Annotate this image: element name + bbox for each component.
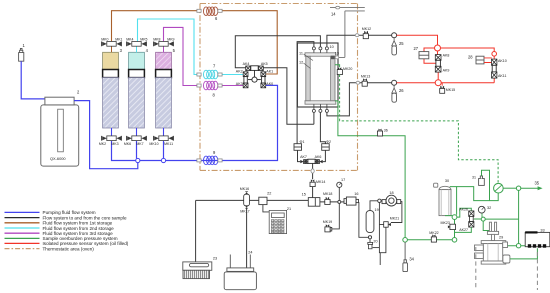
relief bottle 31 [479, 176, 485, 186]
vent line 14 (grey) [330, 8, 365, 58]
svg-text:20: 20 [373, 239, 377, 243]
svg-text:AK27: AK27 [459, 228, 468, 232]
port 13 fitting on right wall [331, 56, 335, 60]
svg-text:AK7: AK7 [300, 155, 307, 159]
storage column 4 (2nd, cyan cap) [129, 46, 145, 136]
node: junction 26 (black circle) [392, 80, 397, 85]
node: junction below 19 [368, 236, 371, 239]
node: green junction below vessel 30 [452, 238, 457, 243]
svg-text:MK8: MK8 [153, 37, 160, 41]
svg-text:31: 31 [472, 175, 476, 179]
svg-text:MK18: MK18 [323, 192, 332, 196]
svg-text:MK6: MK6 [124, 142, 131, 146]
svg-text:MK2: MK2 [99, 142, 106, 146]
valve AK2 [243, 72, 248, 77]
node: junction at press outlet [516, 244, 520, 248]
node: bus junction at column3 [161, 158, 165, 162]
hand press 29 [475, 222, 510, 264]
red isolated pressure sensor loop (left, 27/AK8/AK9) [397, 35, 495, 82]
AK7/AK6 center connector [308, 159, 315, 163]
svg-text:MK0: MK0 [101, 37, 108, 41]
wire: AK4 to core top port2 (black) [235, 36, 320, 68]
svg-text:AK1: AK1 [266, 70, 273, 74]
svg-text:AK3: AK3 [236, 82, 243, 86]
node: outlet junction 35 [516, 186, 520, 190]
svg-text:AK4: AK4 [243, 62, 250, 66]
collection flask 24 [224, 255, 256, 290]
core holder outer box 10 [297, 43, 338, 107]
left column connector [244, 77, 247, 83]
wire: AK27 bottom back to MK23 line [455, 227, 472, 232]
svg-text:10: 10 [330, 45, 334, 49]
valves MK16 / MK17 separator [244, 191, 250, 208]
svg-text:AK26: AK26 [459, 207, 468, 211]
wire: F1 to AK7 [298, 150, 301, 161]
wire: sample line left of 15 (to MK16/22) [196, 199, 309, 201]
filter F2 [322, 144, 330, 151]
coil 6 (brown heat exchanger) [204, 7, 218, 16]
svg-text:23: 23 [213, 256, 217, 260]
right column connector [262, 77, 265, 83]
tank 2 QX-6000 [41, 97, 79, 166]
cable: controller to floor (dashed grey) [536, 252, 538, 290]
valve AK1 [261, 72, 266, 77]
balance 23 [183, 262, 212, 279]
valve MK12 [363, 31, 368, 39]
wire: column3 valve to bus [163, 141, 165, 159]
node: junction at gauge 17 [338, 200, 341, 203]
storage column 5 (3rd, plum cap) [156, 46, 172, 136]
svg-text:MK3: MK3 [111, 142, 118, 146]
core top ports [312, 47, 328, 53]
pressure sensor 27 [419, 52, 429, 59]
valve MK22 [431, 234, 436, 242]
node: green junction at 34 [403, 238, 408, 243]
valve pair MK10 MK11 [154, 136, 174, 141]
wire: pump right port to MK21 [391, 202, 402, 223]
svg-text:14: 14 [331, 11, 336, 16]
svg-text:21: 21 [287, 207, 291, 211]
svg-text:MK23: MK23 [441, 221, 450, 225]
wire: junction down to press circuit [518, 190, 520, 243]
outlet arrow 35 [521, 187, 539, 189]
svg-text:MK22: MK22 [429, 231, 438, 235]
node: bus junction at column2 [136, 158, 140, 162]
wire: MK17 down to flask 24 [246, 209, 248, 268]
valve AK7 [300, 160, 308, 164]
valve MK19 [325, 224, 332, 232]
svg-text:35: 35 [535, 180, 540, 185]
computer 21 (keypad) [269, 210, 286, 233]
gauge 32 [481, 213, 483, 217]
node: junction left of pump 18 [378, 199, 381, 202]
svg-text:MK11: MK11 [164, 142, 173, 146]
svg-text:26: 26 [399, 88, 404, 93]
valve MK13 [362, 78, 367, 86]
svg-text:MK19: MK19 [323, 220, 332, 224]
valve AK0 [261, 83, 266, 88]
svg-text:Φ1: Φ1 [300, 140, 305, 144]
valve MK14 [310, 179, 315, 186]
wire: vessel 30 to regulator (green loop) [457, 187, 499, 201]
manifold center circle [254, 70, 256, 77]
bottle 26 [392, 85, 397, 93]
valve AK26 [469, 211, 474, 217]
wire: F2 to AK6 [323, 150, 326, 161]
svg-text:Thermostatic area (oven): Thermostatic area (oven) [43, 246, 95, 251]
svg-text:MK5: MK5 [140, 37, 147, 41]
wet gas meter 16 [344, 197, 359, 205]
svg-text:25: 25 [399, 41, 404, 46]
svg-text:MK7: MK7 [136, 142, 143, 146]
wire: AK9 down to junction [437, 72, 439, 79]
gas meter 22 [259, 197, 267, 204]
wire: pump junction down / MK21 drain [379, 203, 386, 266]
coil 7 (cyan) [204, 70, 218, 79]
valve AK11 [492, 72, 497, 78]
wire: magenta from coil 8 to AK3 [222, 85, 243, 87]
svg-text:AK2: AK2 [236, 70, 243, 74]
valve pair MK0 MK1 [102, 42, 122, 47]
wire: circle28 to AK10 [493, 56, 495, 59]
node: green junction at vessel 30 bottom [452, 215, 457, 220]
wire: brown from column1 top to coil 6 [112, 11, 197, 42]
wire: trap 20 outlet [373, 247, 380, 249]
valve AK4 [246, 66, 251, 71]
svg-text:MK14: MK14 [316, 180, 325, 184]
wire: 22 to computer 21 [263, 205, 269, 212]
svg-text:36: 36 [384, 128, 388, 132]
wire: 16 down to drying column 19 bottom [359, 203, 369, 238]
oven wall fitting on MK14 line [311, 169, 314, 173]
wire: junction25 to sensor tree [397, 35, 438, 45]
svg-text:AK6: AK6 [315, 155, 322, 159]
wire: green overburden main line core to junction 34 [335, 101, 405, 238]
wire: cyan from coil 7 to AK2 [222, 74, 243, 76]
pressure sensor 28 [476, 56, 484, 64]
oven wall fitting on MK12 line [355, 34, 359, 37]
wire: junction up through MK23 to vessel 30 [454, 220, 456, 238]
wire: bottle 31 branch [482, 170, 490, 200]
valve pair MK8 MK9 [154, 42, 174, 47]
wire: stack to gauge junction and to pressure rail [474, 218, 519, 220]
wire: junction to 16 [341, 201, 344, 203]
svg-text:11: 11 [299, 51, 303, 55]
gauge 17 [338, 187, 340, 200]
valve AK5 [259, 66, 264, 71]
svg-text:MK15: MK15 [446, 88, 455, 92]
back pressure device 15 [308, 198, 320, 207]
wire: gauge junction down to press 29 [483, 221, 489, 230]
svg-text:MK17: MK17 [240, 210, 249, 214]
wire: magenta from column3 top to coil 8 [164, 27, 197, 85]
thermostatic oven boundary (dash-dot) [200, 4, 358, 171]
coil 8 (magenta) [204, 81, 218, 90]
moisture trap 20 [369, 239, 371, 243]
storage column 3 (1st, tan cap) [103, 46, 119, 136]
bottle 34 [403, 260, 408, 272]
svg-text:29: 29 [499, 236, 503, 240]
legend [5, 212, 40, 248]
valve AK8 [435, 55, 441, 61]
wire: tee up to core top port1 and down to filter F1 [297, 42, 314, 144]
svg-text:17: 17 [341, 178, 345, 182]
svg-text:Φ2: Φ2 [326, 140, 331, 144]
wire: 27 branch [424, 48, 436, 63]
cable: press to floor (dashed grey) [475, 247, 477, 290]
valve pair MK2 MK3 [102, 136, 122, 141]
valve MK18 [325, 197, 330, 205]
svg-text:18: 18 [389, 191, 393, 195]
coil 9 (blue, on pump bus) [204, 156, 218, 165]
filter F1 [294, 144, 302, 151]
svg-text:AK8: AK8 [443, 53, 450, 57]
valve pair MK4 MK5 [127, 42, 147, 47]
wire: vessel 30 connections (green) [445, 187, 457, 216]
node: red junction bottom [435, 80, 441, 86]
AK8/AK9 connector [436, 60, 441, 66]
manifold top connector [251, 66, 258, 71]
wire: brown from coil 6 to AK1 [222, 11, 277, 74]
svg-text:12: 12 [299, 60, 303, 64]
svg-text:13: 13 [335, 52, 339, 56]
svg-text:MK21: MK21 [390, 216, 399, 220]
svg-text:16: 16 [354, 192, 358, 196]
wire: core top port3 to MK12 and sensor junction (black) [327, 35, 392, 47]
bottle 25 [392, 38, 397, 46]
wire: press to junction and to controller 33 [506, 245, 528, 247]
bottle 1 [19, 48, 24, 61]
svg-text:32: 32 [487, 206, 491, 210]
valve AK3 [243, 83, 248, 88]
wire: bottle 1 to tank 2 (blue) [21, 61, 45, 99]
svg-text:34: 34 [409, 257, 414, 262]
svg-text:30: 30 [445, 179, 449, 183]
svg-text:MK13: MK13 [361, 75, 370, 79]
svg-text:MK9: MK9 [167, 37, 174, 41]
valve MK15 [441, 83, 443, 86]
node: junction 25 (black circle) [392, 33, 397, 38]
AK26/AK27 connector [469, 216, 473, 221]
wire: bottom rail to MK13 junction [397, 82, 435, 84]
wire: top rail to right loop [441, 48, 495, 52]
svg-text:22: 22 [267, 192, 271, 196]
valve 36 [377, 129, 382, 136]
wire: circle to AK8 [437, 51, 439, 54]
svg-text:28: 28 [468, 54, 473, 59]
wire: down to balance 23 [195, 200, 197, 262]
svg-text:AK11: AK11 [498, 74, 507, 78]
core holder inner vessel (11 sleeve, 12 core) [305, 53, 336, 104]
AK10/AK11 connector [492, 65, 496, 72]
valve MK20 (overburden tap on core holder) [335, 65, 340, 68]
pressure regulator (circle) [494, 183, 504, 193]
svg-text:MK12: MK12 [362, 27, 371, 31]
wire: junction down to bottle 34 [404, 242, 406, 262]
wire: 15 to MK18 [320, 201, 338, 203]
svg-text:33: 33 [540, 229, 544, 233]
valve AK6 [315, 160, 323, 164]
svg-text:MK10: MK10 [149, 142, 158, 146]
svg-text:MK20: MK20 [343, 67, 352, 71]
wire: blue pump bus under columns to AK0 [112, 85, 278, 160]
svg-text:AK5: AK5 [261, 62, 268, 66]
svg-text:QX-6000: QX-6000 [50, 156, 66, 161]
valve MK21 [384, 222, 391, 228]
svg-text:15: 15 [302, 192, 306, 196]
wire: regulator to outlet junction [503, 187, 516, 189]
oven wall fitting on MK13 line [356, 81, 360, 84]
svg-text:19: 19 [374, 208, 378, 212]
node: red junction 28 [492, 52, 497, 57]
valve pair MK6 MK7 [127, 136, 147, 141]
svg-text:MK16: MK16 [240, 187, 249, 191]
svg-text:AK10: AK10 [498, 59, 507, 63]
valve AK10 [492, 59, 497, 65]
oil vessel 30 [434, 183, 451, 215]
gas pump 18 [382, 195, 401, 206]
wire: junction right to AK26/AK27 stack [457, 208, 471, 217]
leader 12 [304, 63, 311, 69]
node: red junction top [435, 45, 441, 51]
svg-text:24: 24 [248, 251, 252, 255]
wire: cyan from column2 top to coil 7 [138, 19, 197, 75]
drying column 19 [366, 211, 374, 233]
wire: core bottom port2 to filter F2 [320, 112, 325, 143]
core bottom ports [312, 104, 328, 112]
valve MK23 [448, 224, 456, 229]
wire: green junction to MK22 to vessel junction [407, 239, 452, 241]
wire: green dashed reference line MK20 to regulator [340, 75, 499, 184]
wire: bottom pump box to controller 33 [510, 248, 538, 259]
wire: core bottom port3 to MK13 junction (black) [327, 83, 392, 116]
svg-text:AK9: AK9 [443, 69, 450, 73]
svg-text:MK1: MK1 [115, 37, 122, 41]
wire: AK5 around to core bottom port1 (black) [263, 68, 314, 124]
wire: junction down to MK19 [332, 203, 340, 229]
node: junction below gauge 32 [481, 217, 485, 221]
wire: 19 top to pump junction [370, 201, 378, 211]
wire: tank 2 to pump bus (blue) [74, 101, 138, 169]
wire: column2 valve to bus [136, 141, 138, 159]
valve AK9 [435, 66, 441, 72]
svg-text:27: 27 [414, 46, 419, 51]
svg-text:MK4: MK4 [126, 37, 133, 41]
valve AK27 [469, 222, 474, 228]
leader 11 [304, 54, 314, 61]
wire: manifold down to MK14 [312, 163, 314, 197]
controller 33 [525, 232, 550, 246]
wire: bottom rail to right loop [441, 78, 494, 83]
svg-text:AK0: AK0 [266, 82, 273, 86]
